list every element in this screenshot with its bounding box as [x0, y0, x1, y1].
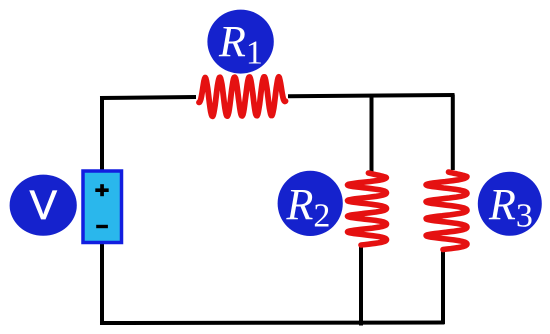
- wire R2 branch bottom vertical: [359, 245, 363, 326]
- node label circle R1: [207, 10, 273, 74]
- wire bottom horizontal: [100, 321, 445, 326]
- node label circle V: [10, 175, 77, 236]
- resistor R3 (vertical coil): [426, 172, 467, 250]
- wire R2 branch top vertical: [370, 95, 374, 173]
- wire top-left horizontal segment: [100, 97, 196, 98]
- wire R3 branch top vertical: [451, 95, 455, 171]
- resistor R1 (horizontal coil): [199, 77, 286, 117]
- wire left vertical (source bottom): [100, 243, 104, 324]
- resistor R2 (vertical coil): [348, 173, 387, 245]
- battery V (voltage source body): [83, 171, 122, 243]
- node label circle R3: [478, 172, 542, 236]
- battery positive terminal mark: [95, 184, 108, 196]
- wire left vertical (source top): [100, 96, 104, 170]
- battery negative terminal mark: [96, 225, 108, 228]
- node label circle R2: [278, 171, 343, 236]
- wire R3 branch bottom vertical: [441, 249, 445, 324]
- svg-text:V: V: [30, 182, 58, 228]
- wire top-right horizontal segment: [288, 95, 455, 96]
